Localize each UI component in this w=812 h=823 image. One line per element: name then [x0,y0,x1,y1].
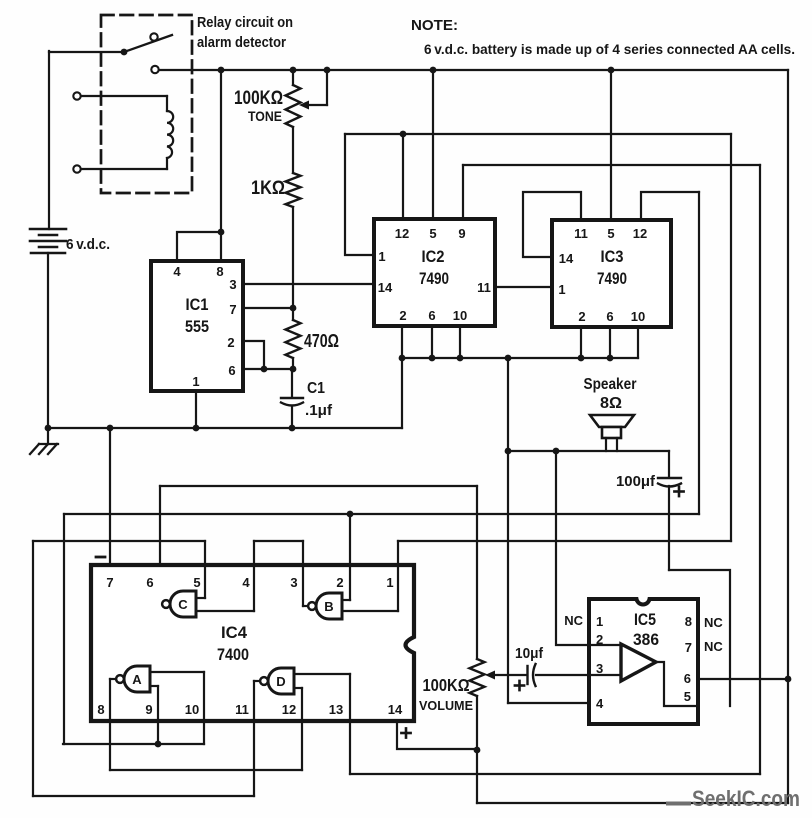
label NOTE heading [411,17,458,34]
svg-text:11: 11 [235,702,249,717]
label R4 value [423,675,470,695]
label IC2 part [419,270,449,288]
wire IC2 pin10 stub [459,326,461,358]
svg-text:5: 5 [193,575,200,590]
pin 6 label IC2 [428,308,435,323]
wire IC5 pin4 lead [508,702,589,704]
wire coil lower lead [81,168,167,170]
pin 7 label IC1 [229,302,236,317]
wire row pins 8-12 [110,769,302,771]
wire R2 to IC1 pin7 node [292,207,294,308]
wire gateD output pin11 [254,681,260,796]
label IC5 name [634,611,656,629]
wire IC1 pin6 stub [243,368,293,370]
svg-text:4: 4 [173,264,181,279]
pin 11 label IC2 [477,280,491,295]
pin 1 label IC1 [192,374,199,389]
pin 14 label IC3 [559,251,574,266]
svg-text:6: 6 [428,308,435,323]
wire IC3 pin12 jumper [641,192,699,220]
svg-text:2: 2 [578,309,585,324]
wire gateC input pin4 [198,541,254,611]
label R3 value [304,331,339,351]
wire gateD input pin13 [295,674,350,774]
svg-text:9: 9 [145,702,152,717]
wire IC2 pin1 jumper [345,134,374,255]
nand IC U4 IC4 7400 body [91,565,414,721]
wire counters bottom bus [402,357,638,359]
wire left rail to battery [48,51,50,229]
wire row pin13 to right column [350,773,760,775]
svg-text:3: 3 [290,575,297,590]
wire IC4 pin14 supply [397,721,477,749]
resistor R2 1K [286,173,301,207]
junction rail-tone pot [290,67,297,74]
capacitor C1 [281,398,303,406]
svg-text:IC2: IC2 [422,248,445,266]
junction speaker-column [505,448,512,455]
wire row supply bottom [477,802,788,804]
wire gate rail y541 left [33,540,205,542]
svg-text:100μf: 100μf [616,473,656,490]
label IC5 part [633,631,659,649]
speaker LS1 [590,415,634,451]
label NC pin8 [704,615,723,630]
pin 5 label IC3 [607,226,614,241]
label IC4 part [217,646,249,664]
svg-text:10μf: 10μf [515,646,543,662]
battery B1 6v.d.c. [30,229,66,253]
relay dashed enclosure [101,15,192,193]
svg-text:VOLUME: VOLUME [419,698,473,713]
relay switch blade [124,35,172,52]
pin 6 label IC1 [228,363,235,378]
svg-text:8: 8 [97,702,104,717]
potentiometer R4 100K VOLUME [470,486,485,803]
counter U3 IC3 7490 body [552,220,671,327]
wire IC2 pin5 riser [432,70,434,219]
pin 9 label IC4 [145,702,152,717]
pin 10 label IC3 [631,309,645,324]
label relay circuit line2 [197,35,286,51]
label R2 value [251,178,285,199]
wire feedback column right [730,134,732,541]
wire left column to pins9-10 [63,514,65,744]
wire C3 bottom lead [668,486,670,570]
svg-text:SeekIC.com: SeekIC.com [692,786,800,811]
label C2 polarity [515,681,524,690]
junction bus-IC3pin2 [578,355,585,362]
label pin14 polarity [401,728,410,737]
pin 8 label IC4 [97,702,104,717]
wire IC2 pin2 stub [401,326,403,358]
pin 2 label IC3 [578,309,585,324]
wire IC1 supply riser [220,70,222,232]
svg-text:1: 1 [558,282,565,297]
svg-text:8: 8 [216,264,223,279]
wire gateC output riser [159,486,161,604]
junction rail-IC3 pin5 [608,67,615,74]
pin 10 label IC4 [185,702,199,717]
svg-text:6: 6 [146,575,153,590]
svg-text:IC3: IC3 [601,248,624,266]
svg-text:14: 14 [559,251,574,266]
svg-text:1KΩ: 1KΩ [251,178,285,199]
junction ground-IC1pin1 [193,425,200,432]
pin 2 label IC5 [596,632,603,647]
wire IC2pin9 column right [759,165,761,774]
wire gateD input pin12 [295,688,302,770]
svg-text:6 v.d.c.: 6 v.d.c. [66,236,110,253]
svg-text:6: 6 [684,671,691,686]
svg-text:3: 3 [229,277,236,292]
svg-text:12: 12 [633,226,647,241]
junction pin6-R3-C1 [290,366,297,373]
relay coil terminal lower [73,165,80,172]
svg-text:6: 6 [606,309,613,324]
resistor R3 470 [286,308,301,369]
wire IC1 pin1 lead [195,391,197,428]
junction rail-pot wiper [324,67,331,74]
pin 1 label IC2 [378,249,385,264]
svg-text:C: C [178,597,188,612]
amplifier U5 IC5 386 body [589,599,698,724]
svg-text:5: 5 [684,689,691,704]
junction ground-C1 [289,425,296,432]
svg-text:.1μf: .1μf [305,402,333,419]
watermark [666,786,800,811]
junction pin6-supply column [785,676,792,683]
wire IC4 pins4-3 jumper top [254,540,303,542]
pin 6 label IC5 [684,671,691,686]
label IC3 name [601,248,624,266]
pin 4 label IC4 [242,575,250,590]
svg-text:IC1: IC1 [186,296,209,314]
pin 14 label IC2 [378,280,393,295]
label C3 polarity [674,487,683,496]
op-amp U1 IC1 555 body [151,261,243,391]
svg-text:1: 1 [596,614,603,629]
wire IC3 pin6 stub [609,327,611,358]
wire C1 top lead [291,369,293,397]
wire C2 to IC5 pin3 [536,674,589,676]
wire IC5 pin2 column [556,451,589,645]
svg-text:1: 1 [386,575,393,590]
relay switch fixed contact [150,33,157,40]
svg-text:A: A [132,672,142,687]
svg-text:11: 11 [477,280,491,295]
pin 11 label IC4 [235,702,249,717]
svg-text:IC4: IC4 [221,624,248,642]
junction volume-pin14 [474,747,481,754]
pin 14 label IC4 [388,702,403,717]
wire long column bus to volume wiper [507,358,509,703]
svg-text:14: 14 [388,702,403,717]
junction IC1 supply tap [218,229,225,236]
pin 6 label IC3 [606,309,613,324]
wire row pin 11 return [33,795,254,797]
wire IC2 pin9 rail [463,164,760,166]
wire C3 top lead [668,451,670,477]
label speaker impedance [600,395,622,412]
wire speaker bottom [508,450,669,452]
op-amp triangle IC5 [621,644,656,681]
label NC pin7 [704,639,723,654]
svg-text:NOTE:: NOTE: [411,17,458,34]
svg-text:7400: 7400 [217,646,249,664]
pin 2 label IC2 [399,308,406,323]
pin 2 label IC4 [336,575,343,590]
wire IC1 pin7 stub [243,307,293,309]
pin 1 label IC3 [558,282,565,297]
volume wiper arrowhead [485,671,495,680]
wire gateC input pin5 [198,541,205,598]
svg-text:B: B [324,599,333,614]
svg-text:386: 386 [633,631,659,649]
pin 11 label IC3 [574,226,588,241]
label IC2 name [422,248,445,266]
svg-text:7: 7 [106,575,113,590]
junction ground-IC4pin7 [107,425,114,432]
relay switch output terminal [151,66,158,73]
wire IC3 pin12 column [698,192,700,514]
wire top supply rail [159,69,788,71]
svg-text:NC: NC [704,639,723,654]
svg-text:Relay circuit on: Relay circuit on [197,15,293,31]
svg-text:6: 6 [228,363,235,378]
wire IC4pin1 rail right [398,540,731,542]
svg-text:4: 4 [596,696,604,711]
wire pot wiper drop [306,70,327,105]
svg-text:10: 10 [185,702,199,717]
svg-text:3: 3 [596,661,603,676]
wire feedback rail upper [345,133,731,135]
wire IC3 pin5 riser [610,70,612,220]
pin 1 label IC5 [596,614,603,629]
svg-text:C1: C1 [307,380,325,397]
nand gate B [308,593,342,619]
svg-text:1: 1 [192,374,199,389]
svg-text:7: 7 [685,640,692,655]
junction rail-IC4pin2 [347,511,354,518]
svg-text:9: 9 [458,226,465,241]
wire pot to R2 [292,127,294,173]
junction pin9 row [155,741,162,748]
svg-text:2: 2 [227,335,234,350]
svg-text:5: 5 [607,226,614,241]
svg-text:D: D [276,674,285,689]
svg-text:100KΩ: 100KΩ [234,88,283,109]
wire gateA output pin8 [110,679,116,770]
svg-text:4: 4 [242,575,250,590]
label NC pin1 [564,613,583,628]
wire row pins 9-10 [63,743,204,745]
wire IC4 pin7 ground drop [109,428,111,565]
wire gateC-output to volume rail [160,485,477,487]
label R4 VOLUME [419,698,473,713]
wire IC5 internal in+ [589,644,621,646]
pin 5 label IC4 [193,575,200,590]
svg-text:1: 1 [378,249,385,264]
pin 12 label IC4 [282,702,296,717]
pin 7 label IC4 [106,575,113,590]
wire C1 bottom lead [291,407,293,428]
pin 3 label IC5 [596,661,603,676]
wire coil upper lead [81,95,167,97]
junction blade pivot [121,49,128,56]
potentiometer R1 100K TONE [286,70,301,127]
wire gateB output pin3 [303,541,308,606]
label IC1 part [185,318,209,336]
wire IC5 pin6 supply [698,678,788,680]
label R1 TONE [248,109,282,124]
pin 1 label IC4 [386,575,393,590]
svg-text:13: 13 [329,702,343,717]
junction bus-IC3pin6 [607,355,614,362]
relay coil L1 [167,96,173,169]
svg-text:7490: 7490 [597,270,627,288]
svg-text:alarm detector: alarm detector [197,35,286,51]
nand gate D [260,668,294,694]
pin 2 label IC1 [227,335,234,350]
svg-text:12: 12 [395,226,409,241]
pin 12 label IC2 [395,226,409,241]
svg-text:Speaker: Speaker [584,376,637,393]
junction pin7-R2-R3 [290,305,297,312]
svg-text:5: 5 [429,226,436,241]
label C2 value [515,646,543,662]
pin 8 label IC5 [685,614,692,629]
capacitor C3 100uF [658,478,681,487]
wire gateB input pin2 [343,514,350,600]
wire IC2 pin11 to IC3 pin1 [495,286,552,288]
wire IC1 pins 4-8 jumper [177,232,221,261]
label IC4 name [221,624,248,642]
svg-text:7: 7 [229,302,236,317]
svg-text:TONE: TONE [248,109,282,124]
junction speaker-IC5pin2 column [553,448,560,455]
wire far left column to pin11 [32,541,34,796]
svg-text:8Ω: 8Ω [600,395,622,412]
wire IC1 pin2 jog [243,341,264,369]
wire volume wiper [492,674,527,676]
pin 13 label IC4 [329,702,343,717]
label speaker [584,376,637,393]
pin 4 label IC5 [596,696,604,711]
wire IC3 pin11-pin14 jumper [523,192,581,257]
pin 8 label IC1 [216,264,223,279]
wire supply column far right [787,70,789,803]
ground symbol [30,428,58,454]
label IC1 name [186,296,209,314]
svg-text:7490: 7490 [419,270,449,288]
relay coil terminal upper [73,92,80,99]
svg-text:100KΩ: 100KΩ [423,675,470,695]
wire IC5 internal in- [589,674,621,676]
svg-text:14: 14 [378,280,393,295]
pin 12 label IC3 [633,226,647,241]
wire IC2 pin12 riser [402,134,404,219]
nand gate C [162,591,196,617]
svg-text:11: 11 [574,226,588,241]
junction pin12-feedback rail [400,131,407,138]
label C1 ref [307,380,325,397]
wire gateA input pin10 [151,672,204,744]
pin 3 label IC4 [290,575,297,590]
wire gateA input pin9 [151,686,158,744]
svg-text:10: 10 [453,308,467,323]
label C1 value [305,402,333,419]
label IC4 minus [96,556,105,559]
svg-text:555: 555 [185,318,209,336]
pin 6 label IC4 [146,575,153,590]
wire blade to left rail [49,51,124,53]
junction rail-IC1 supply [218,67,225,74]
nand gate A [116,666,150,692]
wire gateB input pin1 [343,541,398,611]
svg-text:2: 2 [399,308,406,323]
junction rail-IC2 pin5 [430,67,437,74]
wire IC3pin12 to gates rail [64,513,699,515]
svg-text:470Ω: 470Ω [304,331,339,351]
wire battery to ground rail [47,253,49,428]
label relay circuit line1 [197,15,293,31]
svg-text:IC5: IC5 [634,611,656,629]
wire ground rail riser to logic bus [401,358,403,428]
counter U2 IC2 7490 body [374,219,495,326]
pot wiper arrowhead [299,101,309,110]
svg-text:NC: NC [704,615,723,630]
junction bus-IC2pin10 [457,355,464,362]
label C3 value [616,473,656,490]
svg-text:10: 10 [631,309,645,324]
capacitor C2 10uF [528,664,536,686]
wire C3 to IC5 pin5 [669,570,730,706]
junction bus-IC2pin6 [429,355,436,362]
label NOTE body [424,41,795,57]
label battery value [66,236,110,253]
pin 3 label IC1 [229,277,236,292]
wire IC2 pin9 drop [462,165,464,219]
svg-text:NC: NC [564,613,583,628]
wire IC1 pin3 to IC2 pin14 [243,283,374,285]
wire IC2 pin6 stub [431,326,433,358]
svg-text:12: 12 [282,702,296,717]
junction bus-IC2pin2 [399,355,406,362]
junction ground-battery [45,425,52,432]
svg-text:8: 8 [685,614,692,629]
svg-text:2: 2 [336,575,343,590]
pin 5 label IC2 [429,226,436,241]
svg-text:6 v.d.c. battery is made up of: 6 v.d.c. battery is made up of 4 series … [424,41,795,57]
junction bus-speaker column [505,355,512,362]
junction pin2-pin6 [261,366,268,373]
pin 9 label IC2 [458,226,465,241]
wire IC3 pin10 stub [637,327,639,358]
wire IC3 pin2 stub [580,327,582,358]
pin 7 label IC5 [685,640,692,655]
pin 10 label IC2 [453,308,467,323]
pin 4 label IC1 [173,264,181,279]
label IC3 part [597,270,627,288]
pin 5 label IC5 [684,689,691,704]
label R1 value [234,88,283,109]
wire IC5 internal output [656,662,698,706]
wire ground rail [48,427,402,429]
